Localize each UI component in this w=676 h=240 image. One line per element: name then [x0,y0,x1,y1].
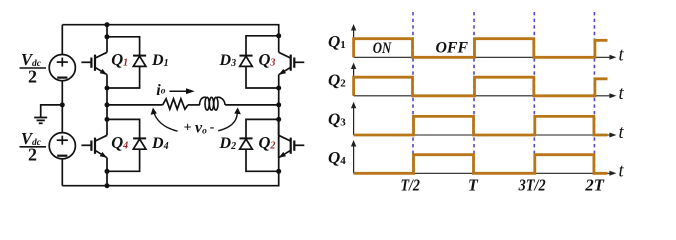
svg-text:Q4: Q4 [111,133,128,152]
svg-text:D3: D3 [219,52,237,69]
svg-text:t: t [619,123,625,143]
svg-text:D4: D4 [151,135,169,152]
svg-text:-: - [210,120,215,135]
svg-text:ON: ON [373,40,392,57]
svg-text:t: t [619,162,625,182]
svg-text:io: io [156,82,165,99]
svg-text:T: T [468,176,479,195]
svg-text:3T/2: 3T/2 [518,176,546,195]
svg-text:2: 2 [28,66,37,86]
svg-text:Q2: Q2 [259,133,276,152]
svg-text:D2: D2 [219,135,237,152]
svg-text:2: 2 [28,145,37,165]
svg-text:T/2: T/2 [400,176,420,195]
svg-text:D1: D1 [151,52,169,69]
svg-text:2T: 2T [584,176,604,195]
svg-text:Q3: Q3 [328,110,346,129]
svg-text:Q3: Q3 [259,50,276,69]
svg-text:t: t [619,46,625,66]
svg-text:+: + [184,121,192,136]
svg-text:Q1: Q1 [328,32,346,51]
svg-text:Q2: Q2 [328,71,346,90]
svg-text:vo: vo [195,120,207,137]
svg-text:Q4: Q4 [328,148,346,167]
svg-text:Q1: Q1 [111,50,128,69]
svg-text:t: t [619,84,625,104]
svg-text:OFF: OFF [436,40,469,57]
